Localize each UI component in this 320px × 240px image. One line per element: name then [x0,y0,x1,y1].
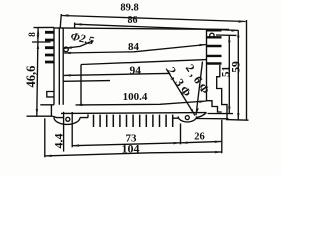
profile: bottom left screw boss arc [54,118,80,125]
svg-text:94: 94 [130,65,142,77]
dimension line 51 (vertical right) [228,35,230,113]
svg-text:4.4: 4.4 [52,134,66,149]
profile: right wall screw boss circle [210,33,214,37]
arrowheads 86 [75,23,239,32]
extension line right of 89.8 [246,20,248,120]
svg-text:59: 59 [231,61,243,73]
profile: left wall outer bump [47,92,54,97]
dimension line 94 [64,73,169,75]
bottom reference tick for 51 [208,113,234,115]
reference tick top of 8 [34,26,55,28]
profile: bottom centre boss hole [185,116,189,120]
svg-text:100.4: 100.4 [123,91,148,103]
dimension line 26 (bottom right) [181,141,222,142]
dimension line 4.4 (vertical, lower left) [63,112,65,152]
profile: left wall inner face [62,28,64,105]
arrowheads 89.8 [62,14,246,22]
svg-text:89.8: 89.8 [120,3,138,14]
profile: left wall fins (5) [45,32,54,62]
arrowheads 104 [45,151,223,157]
dimension line 89.8 [62,16,246,22]
dimension line 73 (bottom) [72,143,181,146]
svg-text:46,6: 46,6 [24,66,38,88]
profile: left wall screw boss circle (phi2.5) [64,47,69,52]
dimension line 59 (vertical right) [237,30,239,120]
dimension line 100.4 [76,101,207,105]
profile: left lower inner face [80,65,82,105]
profile: left wall outer face [54,28,59,105]
extension line x=70.7 for 73 [71,112,73,147]
profile: bottom centre boss right curve [197,113,207,118]
profile: bottom outer face right portion [172,117,228,120]
arrowheads 51 [228,35,230,113]
profile: inner bottom surface [61,112,207,115]
svg-text:8: 8 [28,32,38,37]
extension line x=221.8 for 26/104 [221,120,223,154]
dimension line 86 [75,24,239,30]
arrowheads of diagonal leaders [190,108,198,116]
profile: bottom outer face left portion [56,114,88,117]
profile: bottom cooling fins comb [94,115,173,127]
svg-text:84: 84 [128,41,140,53]
dimension line 84 [64,45,207,54]
svg-text:86: 86 [128,15,138,26]
dimension line 104 (bottom) [45,152,223,156]
profile: right wall outer zigzag face [217,65,227,119]
arrowheads 73 [72,142,181,147]
leader line of label phi3.2 [166,69,195,116]
dimension line 8 / 46,6 (vertical left) [37,27,38,116]
leader line of label phi2.5 [64,41,93,49]
arrowheads 26 [181,141,222,144]
leader line of label phi2.6 [196,62,203,116]
profile: right wall inner face [206,29,208,101]
extension line left of 89.8 [60,14,61,28]
profile: bottom left step [40,105,56,118]
extension line left of 86 [74,23,76,29]
reference tick bottom of 8 [32,41,51,43]
arrowheads 59 [237,30,239,120]
arrowheads 8 and 46,6 [36,28,40,117]
svg-text:Φ2.5: Φ2.5 [69,31,95,48]
arrowhead of phi2.5 leader [64,46,72,48]
profile: bottom left boss hole [66,117,70,121]
svg-text:104: 104 [122,141,140,155]
profile: left inner groove line [63,80,110,83]
profile: right wall inner step staircase [207,101,222,112]
extension line x=180.5 (boss centre) for 73/26 [180,124,182,145]
reference tick bottom of 46,6 [27,115,53,117]
top reference tick for 51 [216,34,237,36]
svg-text:26: 26 [194,131,205,142]
profile: bottom centre screw boss arc [178,116,196,122]
profile: top cover edge [54,28,229,30]
arrowheads 100.4 [76,101,207,107]
profile: mid shelf line [81,60,207,65]
extension line x=45.8 for 104 [44,118,46,157]
profile: right wall fins (5) [207,30,222,63]
arrowheads 84 [64,44,207,54]
arrowheads 94 [64,74,71,76]
bottom reference tick for 59 [226,119,249,122]
